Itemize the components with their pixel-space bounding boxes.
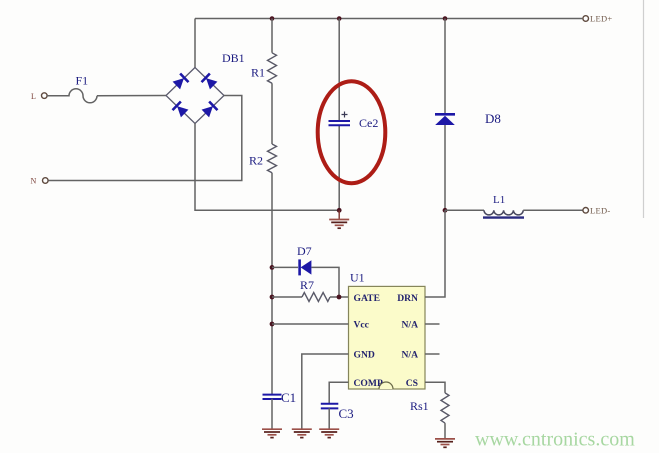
ground at Ce2 <box>329 210 349 228</box>
wire Vcc pin <box>272 323 349 325</box>
svg-text:LED+: LED+ <box>590 14 613 24</box>
svg-text:D7: D7 <box>297 244 312 258</box>
svg-text:Ce2: Ce2 <box>359 116 378 130</box>
svg-text:F1: F1 <box>76 74 89 88</box>
svg-text:R1: R1 <box>251 66 265 80</box>
svg-text:D8: D8 <box>485 111 501 126</box>
node common / Ce2 ground <box>337 208 342 213</box>
node top rail / D8 <box>443 16 448 21</box>
wire top rail <box>195 18 582 20</box>
svg-text:COMP: COMP <box>354 378 383 389</box>
wire N to bridge right <box>49 96 242 181</box>
svg-text:www.cntronics.com: www.cntronics.com <box>475 429 635 451</box>
wire fuse to bridge <box>97 95 166 97</box>
ground at Rs1 <box>435 439 455 447</box>
resistor Rs1 <box>410 393 449 439</box>
node Vcc branch <box>270 322 275 327</box>
node D7 branch <box>270 265 275 270</box>
IC U1 <box>349 271 426 390</box>
svg-text:LED-: LED- <box>590 205 611 215</box>
wire N/A stub 1 <box>425 323 440 325</box>
terminal LED+ <box>583 14 613 24</box>
svg-text:DB1: DB1 <box>222 51 245 65</box>
svg-text:CS: CS <box>406 378 418 389</box>
node R7 branch <box>270 295 275 300</box>
node R7 / GATE <box>337 295 342 300</box>
node LED- / D8 <box>443 208 448 213</box>
svg-text:Rs1: Rs1 <box>410 399 429 413</box>
terminal L <box>31 92 47 101</box>
wire CS pin <box>425 382 445 393</box>
diode DB1 lower-right <box>201 102 217 118</box>
svg-text:GATE: GATE <box>354 293 380 304</box>
inductor L1 <box>445 194 583 218</box>
node top rail / Ce2 <box>337 16 342 21</box>
node top rail / R1 <box>270 16 275 21</box>
svg-text:R2: R2 <box>249 154 263 168</box>
resistor R1 <box>251 53 277 83</box>
wire COMP pin <box>329 382 348 403</box>
wire GND pin <box>302 354 349 429</box>
svg-text:C1: C1 <box>281 390 296 405</box>
terminal LED- <box>583 205 611 215</box>
ground at C3 <box>319 429 339 437</box>
svg-text:Vcc: Vcc <box>354 320 370 331</box>
svg-text:N: N <box>31 177 37 186</box>
svg-text:L: L <box>31 92 36 101</box>
fuse F1 <box>47 74 97 103</box>
terminal N <box>31 177 49 186</box>
capacitor C1 <box>263 390 297 429</box>
diode D7 <box>272 244 339 297</box>
svg-text:U1: U1 <box>350 271 365 285</box>
wire N/A stub 2 <box>425 353 440 355</box>
resistor R7 <box>272 278 349 302</box>
resistor R2 <box>249 144 277 173</box>
svg-text:L1: L1 <box>493 194 505 206</box>
svg-text:C3: C3 <box>339 406 354 421</box>
svg-text:GND: GND <box>354 350 375 361</box>
svg-text:N/A: N/A <box>401 320 418 331</box>
diode DB1 lower-left <box>173 102 189 118</box>
page column border line <box>643 0 645 218</box>
ground at C1 <box>262 429 282 437</box>
svg-text:N/A: N/A <box>401 350 418 361</box>
wire bridge bottom to common <box>195 124 339 211</box>
diode D8 <box>435 19 501 211</box>
svg-text:R7: R7 <box>300 278 314 292</box>
red highlight ellipse <box>318 81 386 183</box>
svg-text:DRN: DRN <box>397 293 418 304</box>
ground at GND pin <box>292 429 312 437</box>
capacitor C3 <box>321 404 354 429</box>
capacitor Ce2 <box>329 19 379 211</box>
diode DB1 upper-right <box>202 74 218 90</box>
diode DB1 upper-left <box>172 74 188 90</box>
bridge rectifier DB1 <box>166 51 245 124</box>
wire R1 R2 column <box>271 19 273 395</box>
wire bridge top to rail <box>194 19 196 68</box>
wire DRN pin <box>425 210 445 297</box>
